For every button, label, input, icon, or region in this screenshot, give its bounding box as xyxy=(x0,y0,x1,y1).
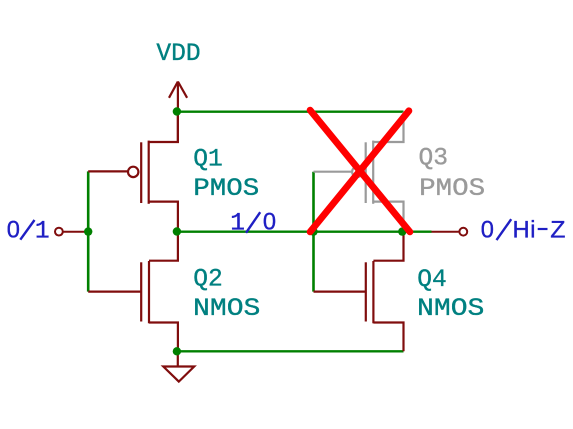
junction dot ground xyxy=(173,347,181,355)
svg-text:Z: Z xyxy=(550,217,565,243)
svg-text:Q4: Q4 xyxy=(417,267,447,294)
X mark over Q3 (red cross) xyxy=(310,110,410,232)
svg-text:0: 0 xyxy=(263,209,276,235)
junction dot input tee xyxy=(84,227,92,235)
svg-text:1: 1 xyxy=(230,210,245,237)
wire: bottom rail ground to Q4 source xyxy=(178,350,404,352)
pin: output pin with open circle xyxy=(432,228,468,236)
junction dot output xyxy=(398,227,406,235)
junction dot VDD xyxy=(173,107,181,115)
svg-text:NMOS: NMOS xyxy=(193,296,260,323)
svg-text:0: 0 xyxy=(7,217,20,243)
ground xyxy=(163,351,194,381)
wire: middle node 1/0 row xyxy=(178,230,403,232)
wire: left input vertical bus xyxy=(87,171,90,291)
svg-text:Q2: Q2 xyxy=(193,267,223,294)
svg-text:0: 0 xyxy=(481,217,494,243)
junction dot right gate tee xyxy=(309,227,317,235)
svg-text:H: H xyxy=(513,217,530,243)
pin: input pin with open circle xyxy=(55,228,88,236)
power symbol VDD xyxy=(169,82,187,143)
svg-text:1: 1 xyxy=(35,218,50,245)
transistor Q2 xyxy=(88,232,178,352)
wire: top rail VDD to Q3 source xyxy=(178,110,404,112)
svg-text:NMOS: NMOS xyxy=(417,296,484,323)
svg-text:Q3: Q3 xyxy=(419,146,449,173)
svg-text:Q1: Q1 xyxy=(193,147,223,174)
wire: output green segment xyxy=(403,230,432,232)
svg-text:PMOS: PMOS xyxy=(419,176,485,203)
svg-text:i: i xyxy=(530,217,535,243)
wire: right gate vertical bus xyxy=(312,172,315,292)
svg-text:PMOS: PMOS xyxy=(193,176,259,203)
transistor Q3 (disabled, gray) xyxy=(314,112,404,232)
junction dot node 1/0 xyxy=(173,227,181,235)
svg-text:VDD: VDD xyxy=(156,41,200,68)
transistor Q1 xyxy=(88,112,178,232)
transistor Q4 xyxy=(314,232,404,352)
